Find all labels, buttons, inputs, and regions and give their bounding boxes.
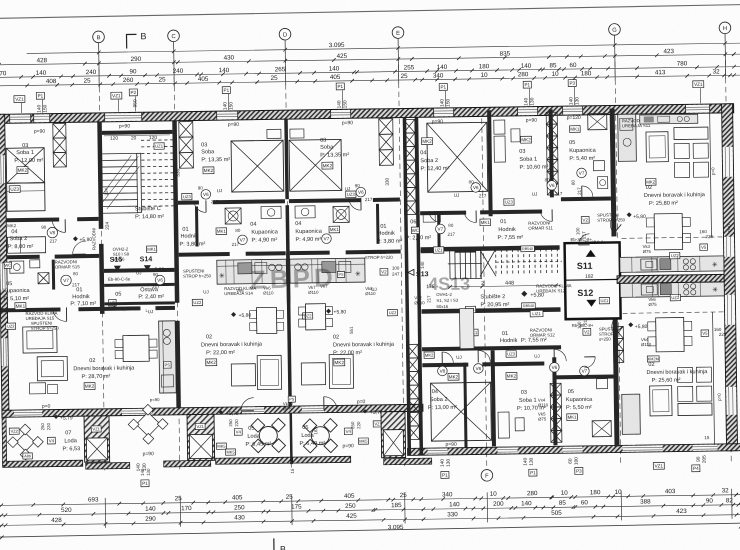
stair treads (102, 140, 175, 213)
sink WC C-D (261, 206, 281, 218)
kitchen column left apt (159, 321, 177, 393)
GH top kitchen counter (640, 114, 698, 124)
loda bay2 (C-D) (216, 457, 291, 464)
stair2 treads (448, 246, 562, 279)
terrace table big (128, 404, 168, 444)
top window/door labels (14, 96, 25, 103)
extra ticks top rows (0, 63, 1, 67)
wall soba1/kupaonica right section with shaft (549, 109, 554, 197)
right exterior wall (722, 104, 738, 451)
Soba1 F-shaft top (494, 120, 505, 134)
D-E module (mirror) (289, 198, 361, 203)
pillar3 hatched (at E) (381, 412, 406, 458)
bottom right section small pillar/wall verticals (463, 363, 467, 448)
party wall B (97, 122, 103, 229)
stair2 labels (408, 269, 414, 275)
party wall E double with shaft (403, 117, 411, 455)
party wall G (610, 108, 617, 236)
closet xcol E side left (379, 119, 394, 166)
bottom-right apartment G-H (mirror) (650, 386, 672, 416)
wall soba2/kupaonica A-B (7, 255, 40, 259)
V6 door circles left (155, 275, 165, 285)
grid bubbles top (93, 31, 105, 51)
pillar2 hatched (187, 414, 215, 460)
sofas C-D (231, 364, 255, 386)
wall soba1/soba2 A-B (6, 217, 59, 222)
stair2 bottom wall (422, 307, 561, 314)
paper border line (0, 5, 740, 19)
sofa set G-H top (646, 132, 668, 162)
kitchen strip D-E (290, 258, 365, 283)
dining table left apartment (123, 335, 149, 361)
sofas D-E (301, 363, 325, 385)
stair bottom wall (104, 268, 175, 273)
E corridor labels (380, 268, 388, 275)
grid verticals in dim bands (98, 54, 100, 88)
party wall D (284, 119, 289, 199)
bottom dimension lines (0, 495, 740, 506)
stair top wall (102, 130, 173, 135)
bottom P/VZ labels (141, 480, 149, 487)
bed C-D (231, 140, 284, 192)
WC top right (437, 215, 440, 249)
extra ticks bottom rows (31, 503, 35, 507)
bottom grid bubble F (481, 469, 493, 481)
bed A-B soba1 (6, 148, 45, 184)
bath fixtures A-B (10, 261, 24, 273)
furniture soba2 A-B (7, 237, 45, 254)
section mark B top (126, 34, 136, 48)
doors bottom living to loda C-D/D-E (241, 398, 254, 411)
doors top right rooms (471, 183, 481, 193)
Soba2 E-F top (427, 122, 488, 192)
sofa set dnevni A-B-C (23, 327, 57, 353)
shower C-D (225, 208, 241, 224)
bottom section mark (273, 538, 275, 550)
loda bay3 (D-E) (293, 456, 351, 463)
dining table G-H top (654, 213, 683, 249)
left edge VZ2/window labels (6, 323, 16, 329)
bottom-right exterior wall (408, 444, 740, 456)
left exterior wall (0, 114, 9, 417)
washer box with X (38, 273, 49, 284)
grid dashed verticals (99, 51, 105, 474)
dining tables C-D D-E (256, 307, 276, 333)
top-right apartment G-H (618, 114, 637, 161)
party wall C (172, 121, 179, 303)
door arc from hodnik to dnevni (52, 307, 66, 321)
bottom hodnik right section (422, 345, 561, 351)
D wall overlay over kitchens (286, 253, 290, 303)
loda bay1 railing (3, 460, 83, 467)
pillar1 hatched (84, 416, 110, 462)
wall under top rooms (hodnik) (420, 211, 466, 216)
bottom right rooms (mirror) (431, 382, 492, 441)
hodnik strip C-D (195, 206, 199, 246)
kupaonica/kitchen wall (179, 252, 230, 257)
V2 door to stair (581, 217, 589, 224)
wall kupaonica/dnevni A-B-C (0, 307, 60, 312)
central double kitchen G-H (620, 256, 724, 273)
S11/S12 shaft box (565, 242, 621, 319)
bottom-left exterior wall (2, 404, 423, 417)
kupaonica/hodnik partition A-B (52, 260, 55, 290)
loda bay1 labels (9, 428, 19, 434)
kitchen strip C-D (217, 259, 287, 284)
door arcs extra (52, 219, 65, 232)
stair2 top wall (421, 245, 560, 252)
UZ2 boxes (192, 299, 202, 306)
loda bay1 table (7, 424, 43, 460)
closet xcol C wall right side (179, 122, 194, 169)
Ostava (104, 283, 175, 287)
dimension lines top (27, 43, 740, 53)
party wall F segment (487, 110, 493, 216)
top exterior wall (0, 104, 734, 124)
closet xcol A-B (53, 123, 67, 167)
kitchen dividers detail (225, 260, 227, 284)
soba/kupaonica wall (178, 200, 199, 204)
